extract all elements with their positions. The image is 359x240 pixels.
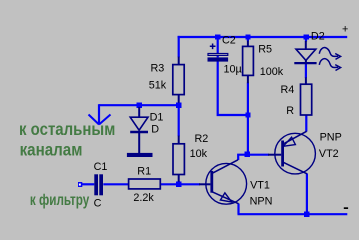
capacitor C1 — [94, 174, 98, 195]
svg-text:R3: R3 — [151, 63, 165, 75]
svg-text:100k: 100k — [260, 66, 284, 78]
node junction C2-R5 — [245, 112, 250, 117]
wire VT1 emitter down — [237, 204, 239, 215]
wire C2 bottom to node — [218, 61, 248, 115]
svg-text:D1: D1 — [150, 112, 164, 124]
svg-text:10k: 10k — [190, 148, 208, 160]
wire arrow head — [89, 115, 111, 125]
node junction R2-R1 — [176, 182, 181, 187]
diode D1 — [130, 117, 148, 130]
transistor VT2 — [275, 133, 316, 174]
D2 emission arrow 1 — [319, 48, 338, 57]
node junction VT2 collector bottom — [304, 212, 309, 217]
node junction D1 — [137, 103, 142, 108]
wire top rail — [178, 36, 348, 38]
transistor VT1 — [206, 163, 247, 204]
wire R4 to VT2 emitter — [305, 115, 307, 132]
svg-text:к остальным: к остальным — [19, 119, 115, 139]
resistor R3 — [173, 65, 184, 95]
resistor R1 — [129, 179, 161, 189]
wire R2 bottom lead — [178, 181, 180, 184]
svg-text:каналам: каналам — [20, 140, 83, 160]
node junction C2 top — [215, 34, 220, 39]
wire R3 top lead — [178, 36, 180, 57]
svg-text:2.2k: 2.2k — [133, 192, 154, 204]
wire arrow stem — [98, 104, 100, 124]
svg-text:51k: 51k — [149, 80, 167, 92]
wire C1 to R1 — [103, 183, 128, 185]
svg-text:R2: R2 — [195, 133, 209, 145]
resistor R5 — [247, 41, 249, 84]
wire node to VT2 base — [248, 154, 269, 156]
wire D2 to R4 — [305, 64, 307, 78]
wire R5 bottom to VT2 base node — [247, 83, 249, 155]
svg-text:R5: R5 — [258, 44, 272, 56]
svg-text:D: D — [151, 124, 159, 136]
port к фильтру terminal — [78, 182, 82, 187]
wire R2 top lead — [178, 105, 180, 136]
D2 emission arrow 2 — [319, 59, 338, 68]
wire R1 to VT1 base — [161, 183, 201, 185]
ground — [127, 153, 153, 157]
wire bottom rail — [238, 213, 348, 215]
diode D2 LED — [296, 49, 316, 60]
svg-text:R: R — [286, 105, 294, 117]
svg-text:PNP: PNP — [320, 132, 342, 144]
capacitor C2 — [208, 54, 228, 56]
wire VT1 collector to node — [238, 155, 248, 160]
svg-text:VT2: VT2 — [319, 148, 339, 160]
node junction VT2 base — [245, 152, 250, 157]
svg-text:NPN: NPN — [250, 195, 273, 207]
svg-text:C2: C2 — [222, 35, 236, 47]
label minus terminal — [344, 207, 348, 209]
wire D2 top lead — [305, 37, 307, 42]
svg-text:D2: D2 — [311, 31, 325, 43]
svg-text:C1: C1 — [94, 161, 108, 173]
svg-text:VT1: VT1 — [250, 179, 270, 191]
wire R5 top lead — [247, 37, 249, 41]
node junction R5 top — [245, 34, 250, 39]
svg-text:10µ: 10µ — [224, 63, 242, 75]
svg-text:R4: R4 — [281, 84, 295, 96]
node junction D2 top — [304, 34, 309, 39]
resistor R2 — [173, 144, 184, 175]
svg-text:к фильтру: к фильтру — [30, 192, 90, 209]
svg-text:+: + — [342, 24, 348, 36]
wire base rail y=105 — [99, 104, 179, 106]
resistor R4 — [305, 77, 307, 84]
wire VT2 collector down — [306, 174, 308, 215]
node junction R3-R2 — [176, 103, 181, 108]
svg-text:C: C — [94, 197, 102, 209]
wire port to C1 — [82, 183, 95, 185]
svg-text:R1: R1 — [137, 165, 151, 177]
wire C2 top lead — [217, 37, 219, 57]
